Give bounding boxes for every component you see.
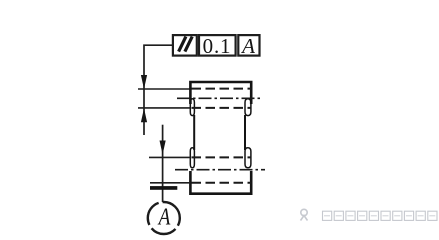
fillet loop bottom-right	[245, 148, 251, 168]
datum thick line	[150, 186, 177, 190]
fillet loop top-left	[190, 99, 194, 116]
top hole upper hidden line	[192, 88, 252, 90]
feature control frame cell 1	[173, 35, 197, 56]
part: web left edge	[193, 115, 195, 150]
extension line: bottom hole upper generator extended left	[149, 156, 190, 158]
extension line: top hole upper generator extended left	[138, 88, 190, 90]
bottom hole upper hidden line	[192, 156, 252, 158]
svg-text:A: A	[240, 34, 255, 58]
datum arrowhead pointing down	[160, 141, 166, 155]
extension line: bottom hole lower generator extended left	[150, 182, 190, 184]
feature control frame cell 3	[238, 35, 259, 56]
part: web right edge	[244, 115, 246, 150]
watermark text blocks	[323, 211, 438, 220]
datum dimension vertical line	[162, 125, 164, 202]
svg-text:A: A	[157, 204, 171, 231]
part: top boss outline	[190, 82, 251, 104]
svg-text:0.1: 0.1	[203, 34, 232, 58]
top hole centre line	[177, 97, 262, 99]
feature control frame cell 2	[199, 35, 236, 56]
parallelism symbol //	[179, 37, 193, 52]
fillet loop bottom-left	[190, 148, 194, 168]
dimension arrowhead pointing up	[141, 108, 147, 122]
leader line from frame with dimension line	[144, 45, 173, 135]
top hole lower hidden line	[192, 107, 252, 109]
extension line: top hole lower generator extended left	[138, 107, 190, 109]
bottom hole lower hidden line	[192, 182, 252, 184]
leader arrowhead pointing down	[141, 75, 147, 89]
fillet loop top-right	[245, 99, 251, 116]
watermark logo	[301, 209, 308, 220]
datum circle	[148, 202, 180, 234]
part: bottom boss outline	[190, 171, 251, 194]
bottom hole centre line	[175, 169, 265, 171]
